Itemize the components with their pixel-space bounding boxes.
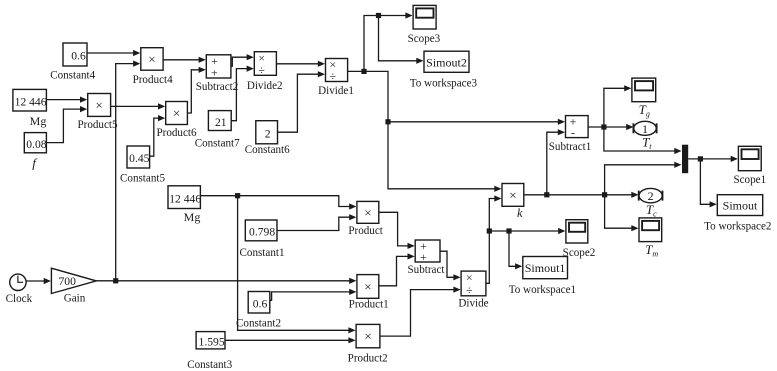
wire Constant1 to Product in2 (277, 214, 356, 230)
wire Product2 out to Divide in2 (380, 287, 461, 337)
svg-text:Constant6: Constant6 (245, 144, 290, 156)
wire Divide out up to k in2 (486, 195, 502, 283)
svg-text:×: × (364, 329, 371, 344)
svg-text:×: × (148, 51, 155, 66)
svg-text:2: 2 (648, 189, 654, 203)
clock block (10, 274, 26, 290)
junction Gain branch (113, 278, 118, 283)
block Divide (x over /) (461, 271, 486, 297)
block Product5 (x) (88, 94, 111, 117)
block Product (x) (357, 201, 379, 223)
svg-text:0.6: 0.6 (71, 50, 86, 63)
svg-text:0.45: 0.45 (129, 152, 149, 165)
junction Simout1 branch (506, 228, 511, 233)
svg-text:Constant1: Constant1 (240, 247, 285, 259)
svg-text:Product1: Product1 (349, 298, 389, 310)
junction Subtract1 out (601, 124, 606, 129)
svg-text:1.595: 1.595 (199, 336, 225, 349)
wire branch down to Simout2 (379, 16, 424, 64)
wire Mg2 to Product in1 (200, 196, 356, 210)
wire Divide1 out down to k in1 (348, 71, 502, 191)
block Product2 (x) (356, 324, 380, 347)
block f 0.08 value 0.08 (24, 133, 46, 153)
wire Gain branch up to Product4 in2 (116, 61, 141, 281)
outport outport 1 (633, 121, 656, 136)
svg-text:To workspace1: To workspace1 (509, 284, 576, 296)
wire Product4 to Subtract2 in1 (163, 57, 206, 63)
wire Product1 out to Subtract in2 (379, 253, 415, 285)
junction Divide1 out (361, 69, 366, 74)
block Constant4 value 0.6 (63, 43, 87, 66)
block Divide2 (x over /) (254, 51, 276, 77)
block Constant3 value 1.595 (196, 332, 225, 349)
wire Constant3 to Product2 in2 (225, 337, 356, 343)
svg-text:Constant2: Constant2 (236, 317, 281, 329)
svg-text:Divide2: Divide2 (247, 80, 283, 92)
block Product6 (x) (166, 102, 188, 125)
svg-text:Subtract2: Subtract2 (196, 81, 239, 93)
svg-text:0.798: 0.798 (249, 226, 275, 239)
wire Mux out to Scope1 (688, 156, 738, 162)
svg-text:Scope3: Scope3 (408, 33, 441, 45)
wire branch to Scope2 (489, 228, 565, 234)
block Product4 (x) (141, 48, 163, 70)
svg-text:÷: ÷ (330, 69, 337, 83)
block Mg 12446 second value 12 446 (168, 186, 201, 209)
svg-text:Divide: Divide (458, 297, 488, 309)
junction Mux out (698, 156, 703, 161)
svg-text:To workspace3: To workspace3 (410, 77, 478, 89)
svg-text:-: - (571, 126, 575, 140)
junction Subtract1 in1 branch (385, 119, 390, 124)
block Constant6 value 2 (256, 121, 278, 144)
block Simout1 (523, 257, 568, 279)
svg-text:Mg: Mg (30, 114, 47, 128)
svg-text:Mg: Mg (184, 210, 201, 224)
svg-text:×: × (173, 106, 180, 121)
svg-text:+: + (420, 250, 427, 264)
svg-text:×: × (96, 97, 103, 112)
svg-text:Clock: Clock (6, 293, 33, 305)
svg-text:Subtract: Subtract (408, 264, 446, 276)
svg-text:Product6: Product6 (156, 127, 197, 139)
svg-text:0.08: 0.08 (26, 138, 46, 151)
svg-text:×: × (364, 279, 371, 294)
wire Divide2 to Divide1 in1 (276, 61, 325, 67)
svg-text:Simout2: Simout2 (426, 55, 467, 69)
wire branch up to Subtract1 in2 (547, 129, 565, 195)
wire Constant4 to Product4 in1 (87, 50, 140, 56)
svg-text:Simout1: Simout1 (525, 261, 566, 275)
wire Product6 to Subtract2 in2 (187, 67, 205, 113)
block Product1 (x) (357, 275, 379, 299)
svg-text:2: 2 (265, 128, 271, 141)
scope Scope3 (413, 5, 436, 29)
svg-text:700: 700 (59, 275, 77, 288)
svg-text:Product: Product (348, 225, 383, 237)
block Constant5 value 0.45 (127, 146, 150, 168)
wire branch to Subtract1 in1 (388, 119, 565, 125)
svg-text:Subtract1: Subtract1 (549, 141, 592, 153)
svg-text:To workspace2: To workspace2 (704, 221, 771, 233)
wire f to Product5 in2 (46, 106, 87, 143)
svg-text:12 446: 12 446 (15, 95, 47, 108)
wire Product5 to Product6 in1 (111, 103, 166, 109)
wire Subtract2 to Divide2 in1 (231, 54, 254, 66)
wire branch down to Simout (700, 159, 716, 208)
svg-text:k: k (517, 206, 523, 220)
wire Clock to Gain (26, 278, 51, 284)
outport outport 2 (639, 188, 663, 203)
block Constant7 value 21 (208, 111, 231, 131)
gain block 700 (51, 268, 96, 293)
junction Mg2 branch (235, 193, 240, 198)
wire Constant6 to Divide1 in2 (278, 71, 326, 132)
junction k out second (602, 192, 607, 197)
wire Constant2 to Product1 in2 (270, 289, 357, 301)
svg-text:Constant4: Constant4 (50, 69, 95, 81)
wire Subtract out to Divide in1 (440, 251, 461, 280)
block Mg 12446 first value 12 446 (13, 89, 47, 111)
wire branch up to Tg scope (604, 85, 632, 127)
block Subtract (+ +) (415, 239, 440, 264)
svg-text:+: + (211, 66, 218, 80)
junction Scope2 branch (487, 228, 492, 233)
block Constant1 value 0.798 (245, 220, 277, 241)
wire Mg to Product5 in1 (46, 97, 87, 103)
scope Tm scope (639, 218, 662, 242)
wire Mg2 branch down to Product2 in1 (238, 196, 356, 334)
svg-text:÷: ÷ (466, 283, 473, 297)
wire branch up to Mux in2 (605, 162, 682, 195)
svg-text:Product4: Product4 (133, 74, 174, 86)
svg-text:Product2: Product2 (348, 353, 388, 365)
svg-text:Product5: Product5 (77, 119, 118, 131)
block Subtract1 (+ -) (566, 115, 589, 140)
block Subtract2 (+ +) (206, 54, 231, 80)
block Simout2 (424, 51, 469, 72)
svg-text:Divide1: Divide1 (318, 85, 354, 97)
wire branch down to Mux in1 (604, 127, 682, 154)
wire k out to outport 2 (524, 192, 639, 198)
block Simout (717, 195, 762, 216)
junction k out first (544, 192, 549, 197)
svg-text:Scope1: Scope1 (733, 174, 766, 186)
wire branch up to Scope3 (364, 12, 413, 71)
svg-text:×: × (364, 205, 371, 220)
wire branch down to Tm scope (605, 195, 639, 232)
scope Scope1 (738, 146, 761, 170)
mux block (682, 145, 688, 174)
svg-text:Simout: Simout (723, 199, 758, 213)
wire branch to Simout1 (509, 231, 522, 269)
svg-text:÷: ÷ (258, 63, 265, 77)
scope Scope2 (566, 220, 588, 243)
block Constant2 value 0.6 (248, 292, 270, 314)
svg-text:12 446: 12 446 (169, 192, 201, 205)
block k (x) (502, 184, 524, 207)
svg-text:Constant7: Constant7 (195, 138, 240, 150)
wire Constant7 to Divide2 in2 (231, 66, 254, 121)
svg-text:Gain: Gain (64, 292, 86, 304)
svg-text:Constant5: Constant5 (120, 172, 165, 184)
wire Product out to Subtract in1 (379, 212, 415, 249)
block Divide1 (x over /) (326, 58, 348, 84)
svg-text:21: 21 (215, 116, 227, 129)
svg-text:0.6: 0.6 (253, 298, 268, 311)
svg-text:Constant3: Constant3 (187, 359, 232, 371)
wire Gain out to Product1 in1 (96, 278, 356, 284)
svg-text:×: × (509, 187, 516, 202)
scope Tg scope (632, 78, 656, 102)
junction Scope3 branch (376, 13, 381, 18)
wire Constant5 to Product6 in2 (150, 115, 166, 156)
wire Subtract1 out to outport 1 (588, 124, 633, 130)
